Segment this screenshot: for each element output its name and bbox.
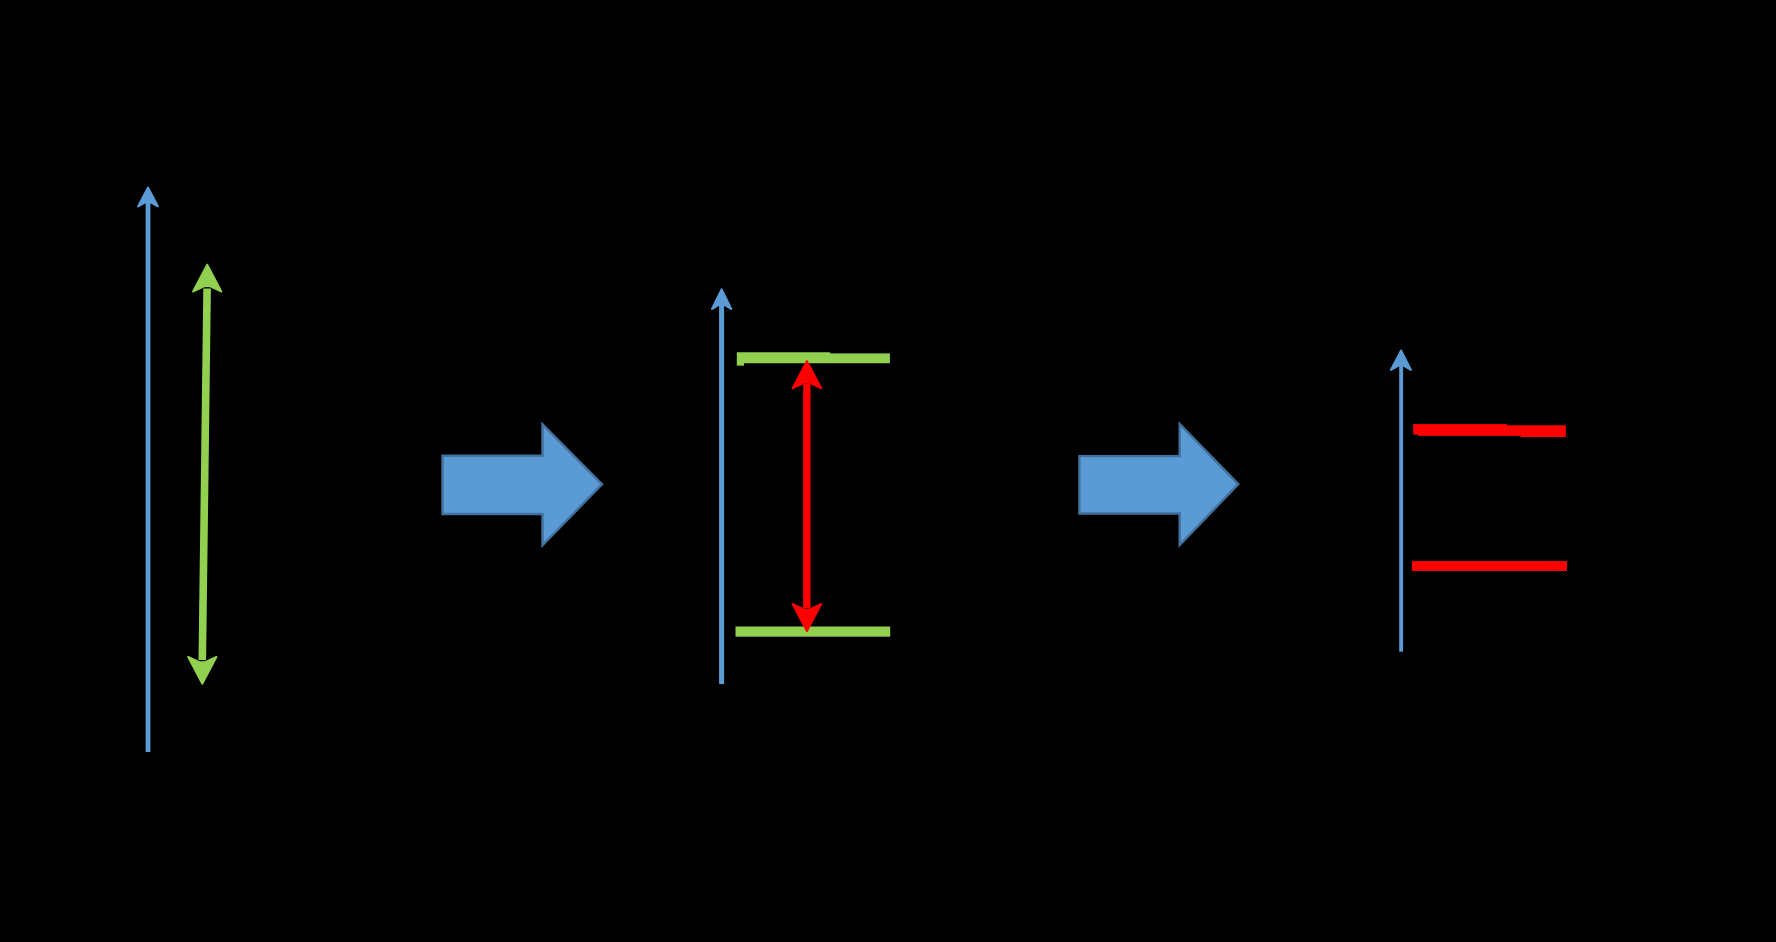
middle energy axis arrow (blue, up) xyxy=(712,289,731,684)
green upper level bar (middle) xyxy=(737,352,890,365)
left energy axis arrow (blue, up) xyxy=(138,188,158,753)
red upper level bar (right) xyxy=(1413,424,1566,437)
green double-headed arrow (pump transition, left) xyxy=(188,265,221,684)
blue block arrow 2 (right transform arrow) xyxy=(1079,424,1238,545)
blue block arrow 1 (left transform arrow) xyxy=(443,424,603,545)
red lower level bar (right) xyxy=(1412,561,1567,571)
red double-headed arrow (laser transition, middle) xyxy=(793,361,822,631)
green lower level bar (middle) xyxy=(736,627,891,637)
right energy axis arrow (blue, up) xyxy=(1391,351,1411,652)
